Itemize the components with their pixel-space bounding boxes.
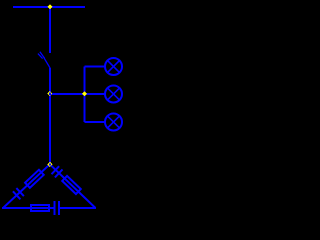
wire: bottom through resistor — [30, 207, 54, 209]
wire: bottom delta branch left part — [2, 207, 30, 209]
switch SA1 arrow arm right — [40, 52, 45, 59]
capacitor C3 plate 2 — [58, 201, 60, 215]
lamp L3 — [105, 114, 122, 131]
resistor R1 (left branch) — [25, 170, 44, 188]
wire: right delta branch — [50, 164, 96, 208]
wire: stub to lamp L3 — [85, 121, 106, 123]
capacitor C3 plate 1 — [53, 201, 55, 215]
wire: stub to lamp L1 — [85, 66, 106, 68]
node top (junction on supply rail) — [47, 4, 52, 9]
node 1 junction — [47, 91, 52, 96]
capacitor C2 (right branch) — [52, 166, 63, 177]
wire: switch to node 1 — [49, 68, 51, 95]
wire: node 1 down to node 3 — [49, 94, 51, 164]
resistor R2 (right branch) — [62, 176, 81, 194]
node 1 wire overlay — [49, 93, 51, 96]
node 2 junction — [82, 91, 87, 96]
wire: bottom right part — [60, 207, 96, 209]
node 3 junction — [47, 162, 52, 167]
lamp L2 — [105, 86, 122, 103]
resistor R3 (bottom branch) — [31, 205, 49, 211]
wire: top supply rail — [13, 6, 85, 8]
node 3 wire overlay — [49, 163, 51, 165]
switch SA1 blade — [44, 58, 50, 68]
capacitor C1 (left branch) — [13, 188, 24, 199]
wire: vertical from top rail to switch — [49, 6, 51, 53]
wire: left delta branch — [3, 164, 50, 208]
switch SA1 arrow arm left — [38, 54, 43, 59]
lamp L1 — [105, 58, 122, 75]
wire: node 1 to lamps bus and lamp L2 — [50, 93, 105, 95]
wire: lamp bus vertical — [84, 67, 86, 123]
